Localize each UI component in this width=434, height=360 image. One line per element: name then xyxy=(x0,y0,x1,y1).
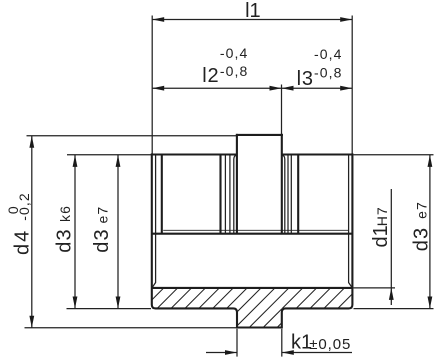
svg-text:d3: d3 xyxy=(411,227,433,252)
svg-text:e7: e7 xyxy=(413,201,429,219)
svg-text:l1: l1 xyxy=(245,0,261,22)
svg-text:-0,4: -0,4 xyxy=(220,45,249,61)
svg-text:d4: d4 xyxy=(12,229,34,255)
svg-text:±0,05: ±0,05 xyxy=(309,336,351,353)
svg-text:-0,2: -0,2 xyxy=(16,192,32,221)
svg-text:k6: k6 xyxy=(57,205,73,222)
svg-text:-0,8: -0,8 xyxy=(220,63,249,79)
svg-text:d1: d1 xyxy=(370,225,392,247)
svg-text:d3: d3 xyxy=(91,228,113,253)
svg-text:H7: H7 xyxy=(374,206,390,226)
svg-text:d3: d3 xyxy=(53,228,75,253)
svg-text:e7: e7 xyxy=(95,206,111,224)
svg-text:-0,4: -0,4 xyxy=(314,46,343,62)
svg-text:l2: l2 xyxy=(202,65,219,87)
svg-text:-0,8: -0,8 xyxy=(314,64,343,80)
svg-text:l3: l3 xyxy=(297,68,314,90)
